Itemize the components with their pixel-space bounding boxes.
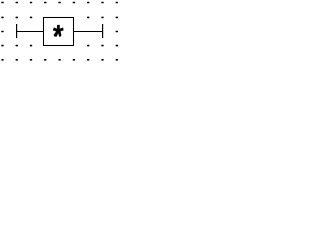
device box <box>44 18 74 46</box>
wire right <box>74 31 103 33</box>
terminal right <box>102 24 103 38</box>
asterisk symbol <box>53 25 64 37</box>
wire left <box>17 31 44 33</box>
terminal left <box>16 24 17 38</box>
